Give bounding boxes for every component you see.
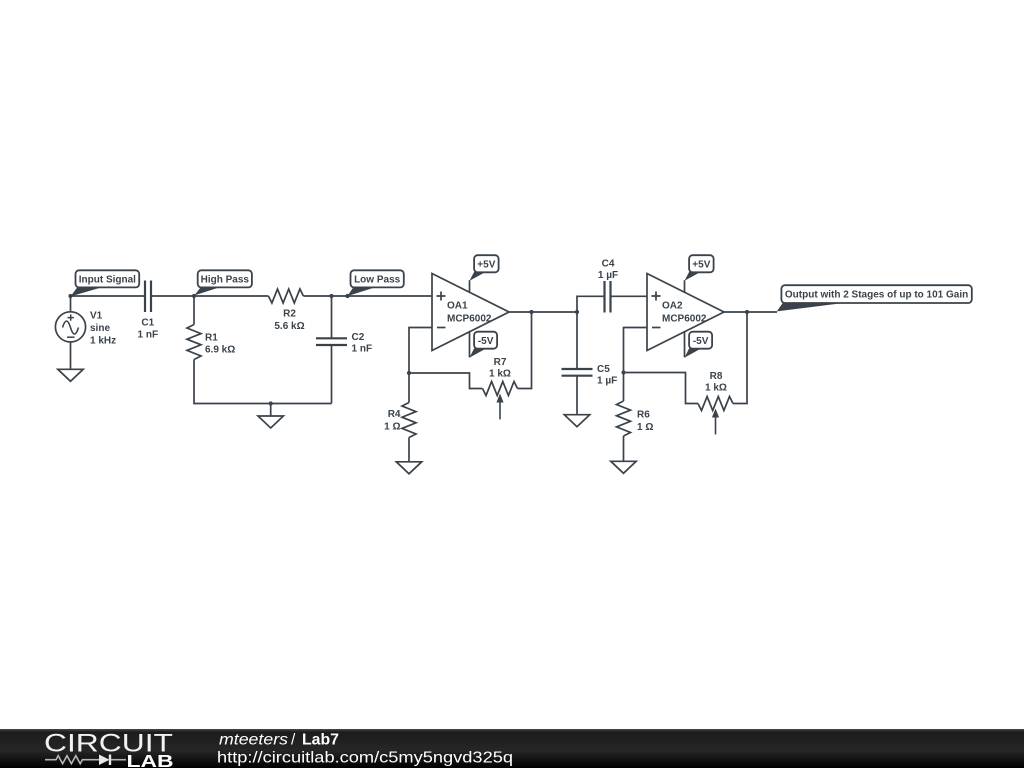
svg-text:1 kHz: 1 kHz <box>90 336 116 347</box>
svg-text:5.6 kΩ: 5.6 kΩ <box>274 321 304 332</box>
node E OA1 out <box>529 310 533 314</box>
ground at R4 <box>396 462 421 474</box>
R8 wiper arrow <box>715 415 717 434</box>
OA1 -V power stem <box>469 331 471 357</box>
svg-text:MCP6002: MCP6002 <box>662 314 707 325</box>
potentiometer R8 <box>698 397 733 411</box>
ground at C5 <box>564 415 589 427</box>
node B high-pass <box>192 294 196 298</box>
wire C1 right plate to node B and R2 <box>151 295 268 297</box>
wire C5 bottom plate to ground <box>576 376 578 415</box>
svg-text:-5V: -5V <box>693 336 709 347</box>
svg-text:Output with 2 Stages of up to: Output with 2 Stages of up to 101 Gain <box>785 290 968 301</box>
svg-text:R1: R1 <box>205 332 218 343</box>
node J ground rail <box>269 401 273 405</box>
svg-text:+5V: +5V <box>477 259 495 270</box>
wire R4 bottom to ground <box>408 438 410 462</box>
svg-text:C1: C1 <box>141 317 154 328</box>
OA2 +V power stem <box>684 280 686 292</box>
svg-text:Lab7: Lab7 <box>302 732 339 749</box>
wire OA2 output through node H to output label <box>724 311 777 313</box>
svg-text:R7: R7 <box>494 357 507 368</box>
wire C2 bottom plate to bottom rail <box>331 345 333 404</box>
ground at R1/C2 rail <box>258 416 283 428</box>
wire node C down to C2 top plate <box>331 296 333 338</box>
net label Input Signal <box>71 287 103 296</box>
potentiometer R7 <box>483 382 518 396</box>
svg-text:OA2: OA2 <box>662 301 683 312</box>
resistor R6 <box>617 401 631 436</box>
net label High Pass <box>194 287 221 296</box>
net label Output <box>777 303 847 312</box>
net flag +5V at OA1 <box>470 272 487 281</box>
wire node G to R7 left <box>409 373 483 389</box>
svg-text:/: / <box>291 732 296 749</box>
node F <box>575 310 579 314</box>
svg-text:R4: R4 <box>388 409 401 420</box>
wire R8 right up to node H <box>733 312 747 404</box>
svg-text:sine: sine <box>90 323 110 334</box>
wire C4 right to OA2 + input <box>611 295 648 297</box>
svg-text:-5V: -5V <box>478 336 494 347</box>
voltage source V1 (sine 1 kHz) <box>55 312 85 342</box>
svg-text:mteeters: mteeters <box>219 732 288 749</box>
R7 wiper arrow <box>499 400 501 419</box>
wire R2 to node C, node D, OA1 + input <box>303 295 432 297</box>
node H OA2 out <box>745 310 749 314</box>
svg-text:1 kΩ: 1 kΩ <box>705 383 727 394</box>
svg-text:MCP6002: MCP6002 <box>447 314 492 325</box>
svg-text:High Pass: High Pass <box>201 274 250 285</box>
svg-text:1 µF: 1 µF <box>598 270 618 281</box>
capacitor C5 <box>562 369 593 376</box>
svg-text:6.9 kΩ: 6.9 kΩ <box>205 345 235 356</box>
op-amp OA1 MCP6002 <box>432 274 509 351</box>
resistor R1 <box>187 325 201 360</box>
svg-text:1 Ω: 1 Ω <box>637 422 653 433</box>
logo resistor-diode symbol <box>45 756 99 764</box>
svg-text:http://circuitlab.com/c5my5ngv: http://circuitlab.com/c5my5ngvd325q <box>217 750 513 767</box>
wire R1 bottom along bottom rail to C2 bottom <box>194 360 332 404</box>
svg-text:1 µF: 1 µF <box>597 375 617 386</box>
capacitor C2 <box>316 338 347 345</box>
svg-text:C5: C5 <box>597 364 610 375</box>
ground at V1 <box>58 369 83 381</box>
resistor R4 <box>402 403 416 438</box>
svg-text:1 nF: 1 nF <box>352 344 373 355</box>
net label Low Pass <box>347 287 376 296</box>
svg-text:LAB: LAB <box>127 751 174 768</box>
OA1 +V power stem <box>469 280 471 292</box>
wire node I down to R6 top <box>623 373 625 402</box>
svg-text:1 Ω: 1 Ω <box>384 422 400 433</box>
wire node I to R8 left <box>624 373 699 404</box>
wire R7 right up to node E <box>518 312 532 389</box>
node G OA1 feedback <box>407 371 411 375</box>
OA2 -V power stem <box>684 331 686 357</box>
capacitor C4 <box>605 281 611 313</box>
footer bar <box>0 729 1024 768</box>
capacitor C1 <box>145 281 151 313</box>
svg-text:1 nF: 1 nF <box>138 329 159 340</box>
svg-text:Input Signal: Input Signal <box>79 274 136 285</box>
node A input <box>68 294 72 298</box>
svg-text:C4: C4 <box>602 259 615 270</box>
wire bottom rail to ground stem <box>270 404 272 417</box>
wire OA2 - input to feedback node I <box>624 328 648 373</box>
wire node F down to C5 top plate <box>576 312 578 369</box>
svg-text:OA1: OA1 <box>447 301 468 312</box>
svg-text:R8: R8 <box>710 371 723 382</box>
wire node A to C1 left plate <box>71 295 146 297</box>
wire OA1 output through node E to node F <box>509 311 577 313</box>
wire OA1 - input to feedback node G <box>409 328 432 374</box>
svg-text:+5V: +5V <box>692 259 710 270</box>
net flag -5V at OA2 <box>685 348 702 357</box>
svg-text:R6: R6 <box>637 410 650 421</box>
svg-text:C2: C2 <box>352 332 365 343</box>
svg-text:R2: R2 <box>283 309 296 320</box>
svg-text:V1: V1 <box>90 311 103 322</box>
resistor R2 <box>268 289 303 303</box>
wire node G down to R4 top <box>408 373 410 403</box>
op-amp OA2 MCP6002 <box>647 274 724 351</box>
wire node B down to R1 top <box>193 296 195 325</box>
wire node F up to C4 left <box>577 296 605 312</box>
wire R6 bottom to ground <box>623 436 625 461</box>
svg-text:Low Pass: Low Pass <box>354 274 401 285</box>
node D low-pass <box>345 294 349 298</box>
wire V1 bottom to ground <box>70 342 72 369</box>
wire node A down to V1 top <box>70 296 72 312</box>
net flag -5V at OA1 <box>470 348 487 357</box>
svg-text:1 kΩ: 1 kΩ <box>489 368 511 379</box>
net flag +5V at OA2 <box>685 272 702 281</box>
node C <box>329 294 333 298</box>
node I OA2 feedback <box>621 370 625 374</box>
ground at R6 <box>611 461 636 473</box>
